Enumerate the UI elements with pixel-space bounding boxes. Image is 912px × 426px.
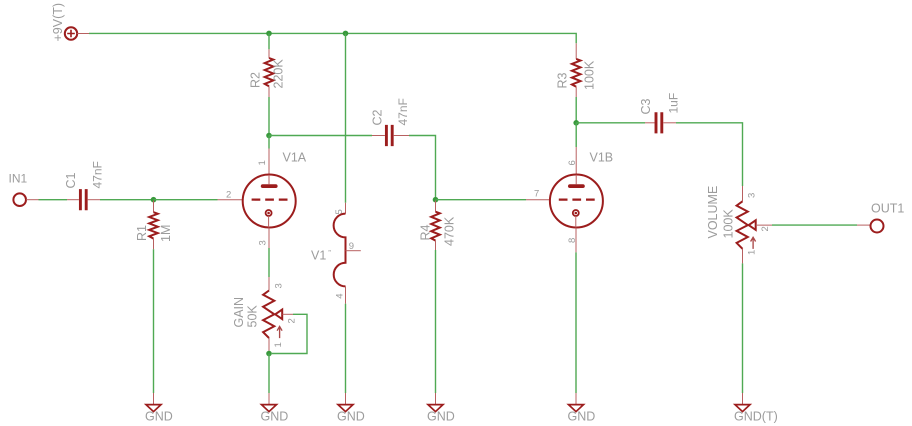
ground GND3	[338, 405, 353, 412]
wire VOLUME to GND(T)	[742, 263, 744, 393]
ground GND6	[735, 405, 750, 412]
GND5 pin	[575, 393, 577, 405]
svg-text:R3: R3	[556, 72, 570, 88]
wire node A to V1A grid	[154, 199, 218, 201]
wire cathode to GAIN	[268, 248, 270, 277]
svg-text:47nF: 47nF	[91, 161, 105, 188]
R3 top pin	[575, 43, 577, 59]
C1 right pin	[88, 199, 100, 201]
svg-text:R1: R1	[135, 225, 149, 241]
svg-text:GND: GND	[145, 410, 173, 424]
C1 left pin	[67, 199, 79, 201]
wire GAIN wiper loop	[272, 314, 307, 353]
wire node B to V1A anode	[268, 136, 270, 149]
svg-text:C1: C1	[64, 172, 78, 188]
GAIN pin 1 lead	[268, 338, 270, 354]
svg-text:VOLUME: VOLUME	[706, 186, 720, 239]
wire IN1 to C1	[39, 199, 68, 201]
supply +9V(T) pin	[77, 33, 89, 35]
svg-text:100K: 100K	[722, 209, 736, 239]
V1A pin 3	[268, 228, 270, 248]
V1A pin 2	[218, 199, 243, 201]
GAIN pin 3 lead	[268, 277, 270, 291]
wire R4 to GND	[435, 250, 437, 393]
capacitor C2	[386, 125, 392, 146]
connector IN1	[13, 193, 26, 206]
wire C1 to node A	[100, 199, 154, 201]
wire R1 to GND	[153, 249, 155, 393]
svg-text:4: 4	[334, 294, 345, 299]
GND4 pin	[435, 393, 437, 405]
wire GAIN to GND	[268, 354, 270, 394]
resistor R4	[431, 212, 440, 241]
svg-text:GND: GND	[568, 410, 596, 424]
svg-text:2: 2	[760, 226, 771, 231]
svg-text:220K: 220K	[272, 59, 286, 89]
VOLUME pin 1 lead	[742, 249, 744, 264]
svg-text:R2: R2	[249, 72, 263, 88]
svg-text:3: 3	[274, 283, 285, 288]
svg-text:V1A: V1A	[283, 151, 307, 165]
wire +9V rail	[89, 33, 576, 43]
ground GND4	[428, 405, 443, 412]
R2 top pin	[268, 49, 270, 58]
IN1 pin	[26, 199, 38, 201]
junction GAIN pin1/pin2	[266, 351, 272, 357]
junction anode node B	[266, 133, 272, 139]
R1 bottom pin	[153, 239, 155, 250]
wire node C to V1B grid	[436, 199, 527, 201]
C2 right pin	[394, 135, 409, 137]
svg-text:1: 1	[273, 342, 284, 347]
svg-text:GND: GND	[261, 410, 289, 424]
svg-text:GND(T): GND(T)	[734, 410, 778, 424]
resistor R2	[265, 58, 274, 86]
svg-text:2: 2	[287, 318, 298, 323]
svg-text:V1B: V1B	[590, 151, 614, 165]
svg-text:GAIN: GAIN	[232, 297, 246, 328]
svg-text:9: 9	[349, 241, 354, 252]
wire rail to heater	[345, 33, 347, 202]
wire C3 to VOLUME	[676, 123, 743, 186]
potentiometer VOLUME	[737, 201, 756, 249]
wire R3 to node D	[575, 97, 577, 123]
connector OUT1	[871, 220, 884, 233]
wire rail to R2	[268, 33, 270, 49]
heater pin 5	[345, 203, 347, 214]
svg-text:1uF: 1uF	[667, 93, 681, 114]
heater element V1 filament	[334, 214, 346, 287]
wire wiper to OUT1	[772, 224, 857, 226]
svg-text:C3: C3	[639, 98, 653, 114]
C2 left pin	[372, 135, 385, 137]
wire node D to C3	[576, 122, 645, 124]
junction rail/R2	[266, 31, 272, 37]
svg-text:GND: GND	[427, 410, 455, 424]
svg-text:7: 7	[534, 189, 539, 200]
svg-text:6: 6	[567, 160, 578, 165]
V1B pin 7	[526, 199, 550, 201]
R2 bottom pin	[268, 86, 270, 97]
ground GND5	[569, 405, 584, 412]
resistor R3	[572, 59, 581, 87]
svg-text:OUT1: OUT1	[871, 202, 904, 216]
R3 bottom pin	[575, 87, 577, 97]
svg-text:C2: C2	[371, 109, 385, 125]
junction node D	[573, 120, 579, 126]
supply +9V(T)	[65, 27, 77, 39]
wire V1B cathode to GND	[575, 252, 577, 393]
GND2 pin	[268, 393, 270, 405]
heater pin 9 stub	[346, 250, 361, 252]
VOLUME pin 2 lead	[756, 224, 772, 226]
svg-text:1: 1	[257, 160, 268, 165]
svg-text:2: 2	[226, 190, 231, 201]
GAIN pin 2 lead	[282, 313, 293, 315]
C3 left pin	[645, 122, 655, 124]
svg-text:R4: R4	[419, 224, 433, 240]
R4 bottom pin	[435, 241, 437, 250]
svg-text:1M: 1M	[159, 225, 173, 242]
triode V1A	[243, 175, 296, 228]
OUT1 pin	[857, 224, 870, 226]
junction node C	[433, 197, 439, 203]
svg-text:8: 8	[567, 238, 578, 243]
V1B pin 6	[575, 147, 577, 174]
V1A pin 1	[268, 149, 270, 175]
R4 top pin	[435, 201, 437, 212]
capacitor C3	[656, 112, 662, 133]
ground GND1	[146, 405, 161, 412]
wire node B to C2	[269, 135, 372, 137]
GND3 pin	[345, 393, 347, 405]
heater pin 4	[345, 286, 347, 303]
junction rail/heater	[343, 31, 349, 37]
capacitor C1	[80, 189, 86, 210]
svg-text:3: 3	[258, 240, 269, 245]
svg-text:50K: 50K	[246, 305, 260, 328]
VOLUME pin 3 lead	[742, 186, 744, 201]
V1B pin 8	[575, 228, 577, 253]
wire R2 to anode node	[268, 97, 270, 136]
R1 top pin	[153, 201, 155, 213]
wire C2 to node C	[409, 136, 436, 200]
triode V1B	[550, 175, 603, 228]
potentiometer GAIN	[263, 291, 282, 339]
svg-text:IN1: IN1	[9, 172, 28, 186]
svg-text:47nF: 47nF	[396, 98, 410, 125]
svg-text:+9V(T): +9V(T)	[51, 3, 65, 42]
resistor R1	[149, 212, 158, 238]
svg-text:GND: GND	[337, 410, 365, 424]
wire node D to V1B anode	[575, 123, 577, 147]
node A junction (C1/R1/grid)	[151, 197, 157, 203]
svg-text:470K: 470K	[443, 216, 457, 246]
GND1 pin	[153, 393, 155, 405]
wire heater to GND	[345, 304, 347, 393]
C3 right pin	[663, 122, 676, 124]
svg-text:1: 1	[747, 250, 758, 255]
svg-text:100K: 100K	[583, 60, 597, 90]
svg-text:3: 3	[747, 193, 758, 198]
ground GND2	[262, 405, 277, 412]
GND6 pin	[742, 393, 744, 405]
